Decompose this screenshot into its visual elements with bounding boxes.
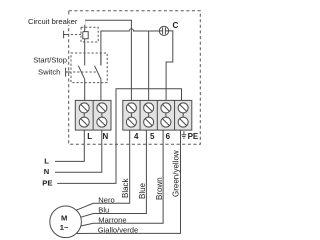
control box dashed border (69, 11, 201, 144)
screw 4 top (126, 103, 136, 113)
svg-text:Blue: Blue (138, 182, 147, 199)
wire supply L (55, 130, 84, 161)
screw 5 top (144, 103, 154, 113)
wire capacitor to terminal 6 (166, 31, 173, 104)
wire pole2 to capacitor with hop over terminal-4 wire (101, 29, 159, 66)
screw 6 bottom (161, 117, 171, 127)
wire supply PE up and over to terminal PE (57, 89, 181, 184)
switch linkage dashed (69, 71, 98, 73)
svg-text:Nero: Nero (98, 195, 114, 204)
svg-text:L: L (44, 156, 49, 165)
circuit breaker actuator dashed link (67, 34, 81, 36)
svg-text:PE: PE (42, 178, 52, 187)
svg-text:PE: PE (188, 132, 199, 141)
label Circuit breaker (64, 15, 85, 25)
svg-text:Green/yellow: Green/yellow (172, 150, 181, 197)
svg-text:Black: Black (121, 177, 130, 198)
svg-text:N: N (103, 132, 109, 141)
svg-text:Blu: Blu (98, 206, 109, 215)
screw 6 top (161, 103, 171, 113)
capacitor C circle (159, 26, 168, 35)
circuit breaker actuator tick (64, 31, 67, 38)
start/stop switch dashed box (71, 53, 107, 83)
switch pole 2 (95, 53, 101, 103)
capacitor C plates (159, 27, 168, 34)
svg-text:Marrone: Marrone (98, 215, 126, 224)
svg-text:C: C (173, 21, 179, 30)
circuit breaker thermal element (83, 32, 88, 53)
svg-text:1~: 1~ (60, 223, 69, 232)
svg-text:L: L (87, 132, 92, 141)
svg-text:Switch: Switch (38, 68, 60, 77)
wire Green/yellow terminal PE to motor (76, 130, 181, 233)
wire supply N (55, 130, 102, 172)
terminal block 4 5 6 PE (123, 100, 192, 130)
motor M1 circle (50, 206, 82, 238)
screw 5 bottom (144, 117, 154, 127)
wire L1 breaker top to terminal 4 (85, 20, 132, 103)
svg-text:5: 5 (150, 132, 155, 141)
wire Brown terminal 6 to motor (81, 130, 163, 226)
circuit breaker Q1 dashed box (81, 27, 98, 42)
screw 4 bottom (126, 117, 136, 127)
wire Blue terminal 5 to motor (81, 130, 146, 217)
switch actuator tick (66, 68, 69, 77)
screw PE top (178, 103, 188, 113)
terminal block L N (75, 100, 111, 130)
svg-text:N: N (44, 167, 49, 176)
svg-text:Circuit breaker: Circuit breaker (28, 17, 78, 26)
screw L top (79, 103, 89, 113)
screw N bottom (97, 117, 107, 127)
svg-text:Brown: Brown (155, 177, 164, 200)
screw L bottom (79, 117, 89, 127)
wire to terminal 5 (148, 31, 150, 103)
switch pole 1 (78, 53, 84, 103)
svg-text:Start/Stop: Start/Stop (33, 55, 67, 64)
screw N top (97, 103, 107, 113)
svg-text:4: 4 (134, 132, 139, 141)
screw PE bottom (178, 117, 188, 127)
wire Black terminal 4 to motor (76, 130, 130, 210)
svg-text:6: 6 (166, 132, 171, 141)
svg-text:Giallo/verde: Giallo/verde (98, 225, 139, 234)
svg-text:M: M (61, 213, 67, 222)
earth symbol PE (181, 131, 186, 138)
